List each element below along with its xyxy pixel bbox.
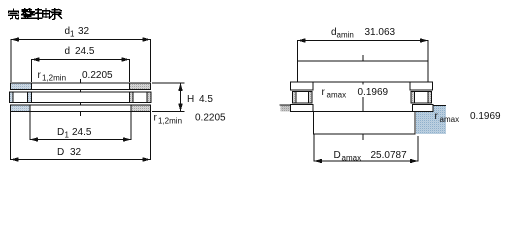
bottom washer right section (shaded gray) [131,105,151,111]
svg-text:D: D [57,147,64,158]
bottom washer outline (full width) [11,105,151,111]
dimension D_amax : extension lines [314,135,418,162]
dimension d 24.5 : text [65,46,95,57]
line over right fillet square [433,104,447,106]
mounted bearing left end : roller [296,92,309,104]
mounted bearing right end : top washer [410,82,433,90]
svg-text:D: D [334,150,341,161]
svg-text:1,2min: 1,2min [158,117,182,126]
svg-text:24.5: 24.5 [75,46,95,57]
dimension d1 32 : extension lines [11,39,151,82]
cage right inner strip [130,92,134,103]
dimension d1 32 : line and arrows [11,37,151,42]
left fillet square (gray) [280,105,293,112]
roller left [13,92,28,103]
centerline left view [80,79,82,116]
top washer right section (shaded gray) [130,83,151,90]
svg-text:d: d [65,46,71,57]
char 承 [49,9,61,20]
cage left outer strip [10,92,14,103]
svg-text:24.5: 24.5 [72,127,92,138]
svg-text:0.2205: 0.2205 [195,113,226,124]
label r_amax 0.1969 upper [322,87,389,100]
svg-text:0.2205: 0.2205 [82,70,113,81]
char 完 [9,9,19,19]
svg-text:31.063: 31.063 [365,27,396,38]
svg-text:1: 1 [70,30,75,39]
dimension D_amax : line and arrows [314,159,418,164]
dimension H 4.5 : line and arrows [178,83,183,111]
svg-text:0.1969: 0.1969 [358,87,389,98]
svg-text:amax: amax [342,154,362,163]
centerline right view [362,55,364,85]
shaft slab [298,61,429,82]
title 完整轴承 (hand-drawn CJK strokes) [9,9,62,20]
dimension d_amin : text [331,27,396,40]
dimension D1 24.5 : extension lines [30,112,131,141]
dimension D 32 : text [57,147,82,158]
dimension d_amin : extension lines [298,40,429,61]
svg-text:amax: amax [440,115,460,124]
svg-text:0.1969: 0.1969 [470,111,501,122]
top washer left section (shaded blue) [11,83,32,90]
mounted bearing right end : cage left strip [411,92,415,104]
svg-text:32: 32 [78,26,90,37]
svg-text:D: D [57,127,64,138]
char 整 [22,9,35,19]
char 轴 [35,9,49,20]
mounted bearing right end : bottom washer [413,105,434,112]
mounted bearing right end : cage right strip [428,92,432,104]
mounted bearing left end : cage outer strip [293,92,297,104]
svg-text:32: 32 [70,147,82,158]
mounted bearing right end : roller [415,92,429,104]
svg-text:25.0787: 25.0787 [371,150,408,161]
dimension d 24.5 : line and arrows [32,57,130,62]
dimension D 32 : line and arrows [11,157,151,162]
dimension D_amax : text [334,150,408,163]
dimension D1 24.5 : text [57,127,92,140]
svg-text:4.5: 4.5 [199,94,213,105]
dimension d 24.5 : extension lines [32,59,130,82]
housing block [314,112,416,135]
dimension d1 32 : text [65,26,90,39]
label r_amax 0.1969 lower right [435,111,502,124]
cage left inner strip [28,92,32,103]
svg-text:H: H [187,94,194,105]
top washer outline (full width) [11,83,151,90]
label r1,2min 0.2205 lower right [154,113,227,126]
mounted bearing left end : bottom washer [291,105,314,112]
dimension D1 24.5 : line and arrows [30,137,131,142]
svg-text:1: 1 [65,131,70,140]
cage row outline (full width) [10,92,152,103]
cage right outer strip [147,92,151,103]
svg-text:amax: amax [327,91,347,100]
svg-text:1,2min: 1,2min [42,74,66,83]
dimension D 32 : extension lines [11,112,151,161]
svg-text:amin: amin [337,31,354,40]
bottom washer left section (shaded blue) [11,105,31,111]
right fillet square (blue) [416,105,446,134]
dimension d_amin : line and arrows [298,38,429,43]
mounted bearing left end : cage inner strip [309,92,313,104]
label r1,2min 0.2205 upper [38,70,114,83]
roller right [133,92,147,103]
dimension H 4.5 : extension lines [152,83,185,111]
mounted bearing left end : top washer [291,82,314,90]
